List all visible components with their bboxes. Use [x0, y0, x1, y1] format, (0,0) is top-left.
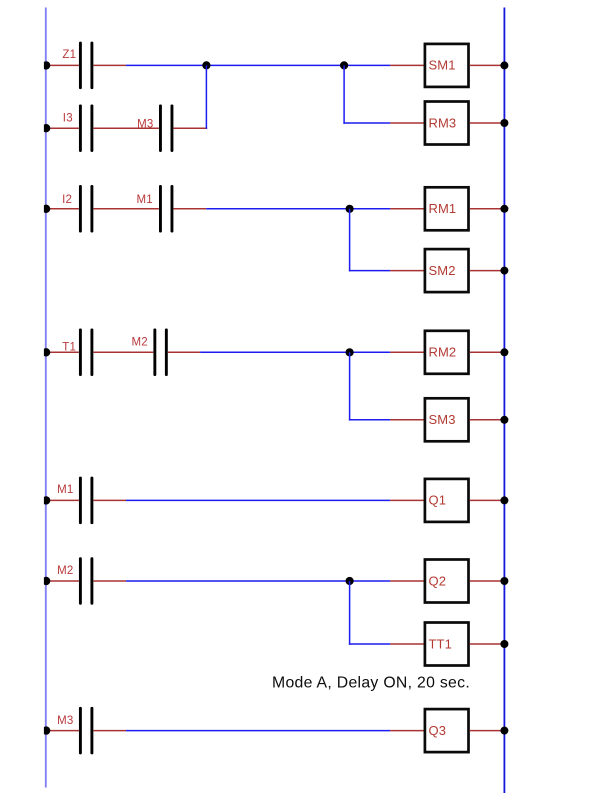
- wire rung3 red after M1: [174, 208, 207, 210]
- wire rung10 red after M3: [94, 730, 127, 732]
- svg-text:RM3: RM3: [429, 115, 457, 130]
- svg-text:M2: M2: [132, 337, 148, 349]
- svg-text:SM3: SM3: [429, 412, 456, 427]
- wire RM1 to right rail red: [470, 208, 505, 210]
- wire Q2 to right rail red: [470, 580, 505, 582]
- wire rung3 red between I2 and M1: [94, 208, 159, 210]
- wire vertical link rung3 to SM2: [349, 209, 351, 272]
- wire TT1 row blue: [349, 643, 390, 645]
- coil Q3: [425, 709, 469, 752]
- terminal dot rung1 right rail: [500, 61, 508, 69]
- wire rung7 blue: [126, 499, 390, 501]
- terminal dot rung10 right rail: [500, 727, 508, 735]
- svg-text:Q3: Q3: [429, 723, 447, 738]
- junction node rung5: [346, 348, 354, 356]
- wire rung5 red into RM2: [390, 351, 423, 353]
- wire rung3 left red: [45, 208, 79, 210]
- contact M3 rung10: [79, 707, 93, 755]
- contact M2 rung5: [153, 329, 167, 377]
- wire rung1 blue: [126, 64, 390, 66]
- contact M1 rung7: [79, 477, 93, 525]
- wire rung8 left red: [45, 580, 79, 582]
- coil RM3: [425, 102, 469, 145]
- wire RM3 row red into coil: [390, 122, 423, 124]
- wire SM2 to right rail red: [470, 270, 505, 272]
- terminal dot rung5 left rail: [42, 348, 50, 356]
- terminal dot rung7 left rail: [42, 496, 50, 504]
- contact I3: [79, 104, 93, 152]
- wire SM3 to right rail red: [470, 419, 505, 421]
- svg-text:Q2: Q2: [429, 573, 447, 588]
- contact M1 rung3: [159, 185, 173, 233]
- coil SM1: [425, 44, 469, 87]
- wire rung1 red after Z1: [94, 64, 126, 66]
- wire rung1 left red: [45, 64, 79, 66]
- wire vertical link rung8 to TT1: [349, 581, 351, 645]
- contact Z1: [79, 42, 93, 90]
- wire rung10 left red: [45, 730, 79, 732]
- wire vertical link rung1 to RM3: [343, 65, 345, 123]
- coil RM2: [425, 331, 469, 374]
- coil RM1: [425, 187, 469, 230]
- coil Q2: [425, 560, 469, 603]
- svg-text:RM1: RM1: [429, 201, 457, 216]
- contact M3 branch: [159, 104, 173, 152]
- svg-text:M1: M1: [57, 484, 73, 496]
- wire rung8 red after M2: [94, 580, 127, 582]
- wire Q1 to right rail red: [470, 499, 505, 501]
- junction node rung3: [346, 205, 354, 213]
- terminal dot rung3 left rail: [42, 205, 50, 213]
- svg-text:T1: T1: [62, 342, 76, 354]
- right power rail: [503, 8, 505, 793]
- wire rung10 blue: [126, 730, 390, 732]
- svg-text:I3: I3: [63, 112, 73, 124]
- terminal dot rung8 right rail: [500, 577, 508, 585]
- wire TT1 to right rail red: [470, 643, 505, 645]
- terminal dot branch left rail: [42, 124, 50, 132]
- wire rung3 red into RM1: [390, 208, 423, 210]
- contact I2: [79, 185, 93, 233]
- wire RM3 row blue: [343, 122, 390, 124]
- wire rung5 left red: [45, 351, 79, 353]
- svg-text:Z1: Z1: [62, 49, 76, 61]
- svg-text:Mode A, Delay ON, 20 sec.: Mode A, Delay ON, 20 sec.: [272, 674, 470, 691]
- wire SM1 to right rail red: [470, 64, 505, 66]
- svg-text:TT1: TT1: [429, 636, 452, 651]
- svg-text:SM1: SM1: [429, 58, 456, 73]
- wire rung5 red after M2: [168, 351, 200, 353]
- wire rung7 red into Q1: [390, 499, 423, 501]
- wire Q3 to right rail red: [470, 730, 505, 732]
- svg-text:Q1: Q1: [429, 493, 447, 508]
- terminal dot rung3 right rail: [500, 205, 508, 213]
- svg-text:M1: M1: [137, 194, 153, 206]
- svg-text:M3: M3: [57, 715, 73, 727]
- wire rung5 red between T1 and M2: [94, 351, 154, 353]
- wire SM2 row blue: [349, 270, 390, 272]
- terminal dot rung7 right rail: [500, 496, 508, 504]
- wire rung1 red into SM1: [390, 64, 423, 66]
- wire SM3 row blue: [349, 419, 390, 421]
- wire RM3 to right rail red: [470, 122, 505, 124]
- coil Q1: [425, 479, 469, 522]
- junction node A rung1: [202, 61, 210, 69]
- wire branch I3 left red: [45, 127, 79, 129]
- wire rung3 blue: [206, 208, 390, 210]
- terminal dot rung5 right rail: [500, 348, 508, 356]
- terminal dot rung8 left rail: [42, 577, 50, 585]
- svg-text:I2: I2: [62, 194, 72, 206]
- wire rung10 red into Q3: [390, 730, 423, 732]
- wire vertical link rung5 to SM3: [349, 352, 351, 420]
- wire rung5 blue: [200, 351, 390, 353]
- svg-text:SM2: SM2: [429, 263, 456, 278]
- wire branch red after M3: [174, 127, 208, 129]
- svg-text:RM2: RM2: [429, 345, 457, 360]
- terminal dot SM3 right rail: [500, 416, 508, 424]
- wire SM2 row red into coil: [390, 270, 423, 272]
- coil SM3: [425, 398, 469, 441]
- contact M2 rung8: [79, 557, 93, 605]
- wire rung7 red after M1: [94, 499, 127, 501]
- junction node B rung1: [340, 61, 348, 69]
- terminal dot rung1 left rail: [42, 61, 50, 69]
- coil SM2: [425, 249, 469, 292]
- wire rung8 blue: [126, 580, 390, 582]
- svg-text:M2: M2: [57, 565, 73, 577]
- coil TT1: [425, 623, 469, 666]
- contact T1: [79, 329, 93, 377]
- wire branch red between I3 and M3: [94, 127, 159, 129]
- wire rung8 red into Q2: [390, 580, 423, 582]
- wire rung7 left red: [45, 499, 79, 501]
- terminal dot TT1 right rail: [500, 640, 508, 648]
- svg-text:M3: M3: [137, 119, 153, 131]
- terminal dot RM3 right rail: [500, 119, 508, 127]
- junction node rung8: [346, 577, 354, 585]
- left power rail: [45, 8, 47, 788]
- wire vertical link branch to rung1: [205, 65, 207, 128]
- terminal dot rung10 left rail: [42, 726, 50, 734]
- terminal dot SM2 right rail: [500, 267, 508, 275]
- wire SM3 row red into coil: [390, 419, 423, 421]
- wire TT1 row red into coil: [390, 643, 423, 645]
- wire RM2 to right rail red: [470, 351, 505, 353]
